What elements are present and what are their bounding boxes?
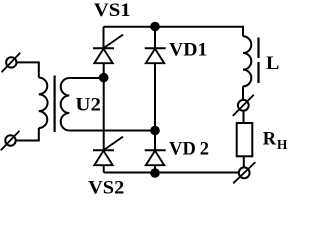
wire resistor to terminal X4 [243, 157, 245, 168]
terminal X1 (top-left input) [2, 53, 21, 72]
wire VD1 to VD2 [154, 63, 156, 150]
svg-text:U2: U2 [75, 94, 101, 115]
transformer U2 primary winding [39, 78, 48, 129]
diode VD1 [145, 48, 166, 63]
node A junction dot [100, 74, 108, 82]
wire secondary bottom (to VD2 branch) [69, 130, 155, 132]
svg-text:VS2: VS2 [88, 178, 124, 198]
svg-text:RH: RH [263, 130, 288, 152]
inductor L winding [243, 36, 251, 86]
wire VS1 to node A and down to VS2 [103, 63, 105, 150]
wire bottom rail [104, 172, 239, 174]
svg-text:L: L [266, 54, 279, 74]
node D junction dot (bottom rail / VD2) [151, 169, 159, 177]
wire VD1 branch vertical [154, 27, 156, 48]
wire X3 to resistor [243, 111, 245, 123]
wire VS1 branch vertical [103, 27, 105, 48]
wire secondary top to node A [69, 77, 103, 79]
inductor L core dashes [257, 38, 259, 84]
resistor RH [237, 123, 253, 156]
wire VS2 to bottom rail [103, 165, 105, 172]
svg-text:VS1: VS1 [94, 0, 131, 20]
svg-text:VD 2: VD 2 [169, 139, 209, 159]
diode VD2 [145, 150, 166, 165]
wire top rail [104, 27, 244, 37]
terminal X2 (bottom-left input) [1, 131, 20, 150]
thyristor VS2 [93, 137, 123, 166]
svg-text:VD1: VD1 [169, 40, 207, 60]
node B junction dot (top rail / VD1) [151, 23, 159, 31]
node C junction dot (secondary bottom / VD2) [151, 127, 159, 135]
wire from X2 to transformer primary bottom [16, 128, 39, 141]
wire L to terminal X3 [242, 86, 244, 100]
terminal X4 (bottom output) [233, 162, 255, 183]
transformer U2 core [53, 76, 55, 133]
thyristor VS1 [93, 35, 123, 64]
terminal X3 (top output) [233, 95, 254, 116]
transformer U2 secondary winding [61, 78, 70, 131]
wire from X1 to transformer primary top [17, 62, 39, 77]
wire VD2 to bottom rail [154, 165, 156, 172]
